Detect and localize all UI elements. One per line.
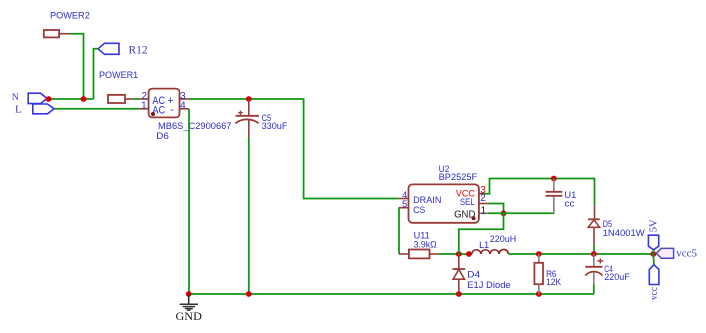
resistor R6: [534, 254, 543, 294]
label 3.9kOhm: [414, 239, 437, 249]
junction N-row POWER2: [81, 96, 87, 102]
svg-text:220uH: 220uH: [490, 234, 517, 244]
pin number 5 (U2): [402, 199, 407, 210]
label U2: [439, 164, 450, 174]
port 5V: [648, 235, 658, 254]
svg-text:2: 2: [480, 193, 486, 204]
label 220uH: [490, 234, 517, 244]
wire L1 to vcc5: [508, 253, 653, 255]
label D4: [467, 270, 480, 280]
port vcc: [649, 254, 659, 285]
svg-text:CS: CS: [413, 205, 425, 216]
wire bridge pin4 down: [188, 109, 190, 294]
label 12K: [546, 277, 562, 287]
svg-text:L: L: [15, 104, 22, 116]
wire POWER1 to bridge pin2: [134, 98, 140, 100]
wire N-row: [47, 98, 94, 100]
connector POWER1: [108, 95, 134, 103]
svg-text:GND: GND: [176, 309, 203, 323]
label L: [15, 104, 22, 116]
label 330uF: [262, 121, 288, 131]
label GND: [176, 309, 203, 323]
label MB6S_C2900667: [158, 121, 232, 131]
svg-text:BP2525F: BP2525F: [439, 172, 478, 182]
junction R6 bottom: [536, 291, 542, 297]
diode D5: [588, 205, 600, 244]
label U1: [564, 190, 576, 200]
wire VCC pin3 top: [484, 179, 595, 206]
wire bridge pin3 to DRAIN: [189, 99, 399, 199]
label 1N4001W: [603, 228, 645, 238]
svg-text:MB6S_C2900667: MB6S_C2900667: [158, 121, 232, 131]
port R12: [98, 43, 119, 54]
label N: [12, 92, 19, 103]
junction C5 bottom: [246, 291, 252, 297]
label L1: [479, 240, 489, 250]
svg-text:1: 1: [141, 101, 147, 112]
port L: [33, 104, 54, 114]
junction N tip: [46, 96, 52, 102]
svg-text:vcc5: vcc5: [676, 248, 697, 260]
label BP2525F: [439, 172, 478, 182]
op chip U2 BP2525F: [399, 184, 488, 222]
svg-text:220uF: 220uF: [604, 272, 630, 282]
pin number 1 (bridge): [141, 101, 147, 112]
svg-text:4: 4: [180, 100, 186, 111]
wire POWER2 to N-row: [69, 34, 84, 99]
label C4: [604, 264, 613, 274]
svg-text:E1J Diode: E1J Diode: [467, 280, 511, 290]
svg-text:3.9kΩ: 3.9kΩ: [414, 239, 437, 249]
svg-text:SEL: SEL: [460, 197, 475, 208]
junction vcc5: [651, 251, 657, 257]
svg-text:330uF: 330uF: [262, 121, 288, 131]
label D6: [156, 131, 169, 141]
wire jog to L1 node: [459, 213, 504, 254]
pin number 3 (U2): [480, 185, 486, 196]
diode D4: [452, 254, 465, 294]
junction R6 top: [536, 251, 542, 257]
label vcc: [648, 287, 660, 300]
svg-text:POWER2: POWER2: [50, 11, 90, 21]
svg-text:12K: 12K: [546, 277, 562, 287]
svg-text:cc: cc: [564, 199, 575, 209]
label 5V: [649, 219, 660, 232]
inductor L1: [472, 249, 509, 254]
pin number 2 (U2): [480, 193, 486, 204]
resistor U11: [399, 250, 438, 259]
svg-text:N: N: [12, 92, 19, 103]
wire GND row to U1: [488, 212, 554, 214]
pin number 2 (bridge): [141, 91, 147, 102]
label C5: [262, 113, 272, 123]
label 220uF: [604, 272, 630, 282]
svg-text:-: -: [170, 104, 174, 116]
svg-text:5V: 5V: [649, 219, 660, 232]
svg-text:5: 5: [402, 199, 407, 210]
bridge rectifier D6: [140, 89, 190, 118]
wire SEL down: [488, 204, 504, 214]
svg-text:1: 1: [481, 205, 487, 216]
junction L1 left b: [466, 251, 472, 257]
net label vcc5: [656, 248, 697, 260]
label POWER1: [99, 70, 138, 80]
svg-text:D4: D4: [467, 270, 480, 280]
capacitor C5: [235, 99, 259, 138]
label R6: [546, 269, 556, 279]
label cc: [564, 199, 575, 209]
wire L to bridge pin1: [54, 108, 139, 110]
wire CS to U11: [398, 208, 400, 254]
svg-text:D6: D6: [156, 131, 169, 141]
junction C4 top: [591, 251, 597, 257]
svg-text:R12: R12: [129, 45, 148, 57]
ground rail: [189, 293, 594, 295]
pin number 1 (U2): [481, 205, 487, 216]
wire C5 to ground rail: [248, 138, 250, 295]
junction SEL-GND: [501, 210, 507, 216]
label POWER2: [50, 11, 90, 21]
pin number 3 (bridge): [180, 91, 186, 102]
pin number 4 (U2): [402, 190, 407, 201]
junction C5 top: [246, 96, 252, 102]
wire U11 to L1: [438, 253, 471, 255]
junction D4 bottom: [456, 291, 462, 297]
svg-text:L1: L1: [479, 240, 489, 250]
wire C4 bottom: [593, 285, 595, 295]
ground GND: [180, 294, 198, 310]
wire R12 to N-row: [94, 49, 99, 99]
label U11: [414, 230, 430, 240]
connector POWER2: [44, 30, 69, 37]
junction U1 top: [551, 176, 557, 182]
port N: [28, 93, 47, 103]
label D5: [603, 219, 612, 229]
label E1J Diode: [467, 280, 511, 290]
junction L1 left a: [456, 251, 462, 257]
junction ground rail left: [186, 291, 192, 297]
svg-text:POWER1: POWER1: [99, 70, 138, 80]
capacitor U1: [546, 179, 563, 214]
svg-text:vcc: vcc: [648, 287, 660, 300]
wire D5 to rail: [593, 244, 595, 254]
svg-text:1N4001W: 1N4001W: [603, 228, 645, 238]
pin number 4 (bridge): [180, 100, 186, 111]
label R12: [129, 45, 148, 57]
capacitor C4: [585, 254, 603, 285]
